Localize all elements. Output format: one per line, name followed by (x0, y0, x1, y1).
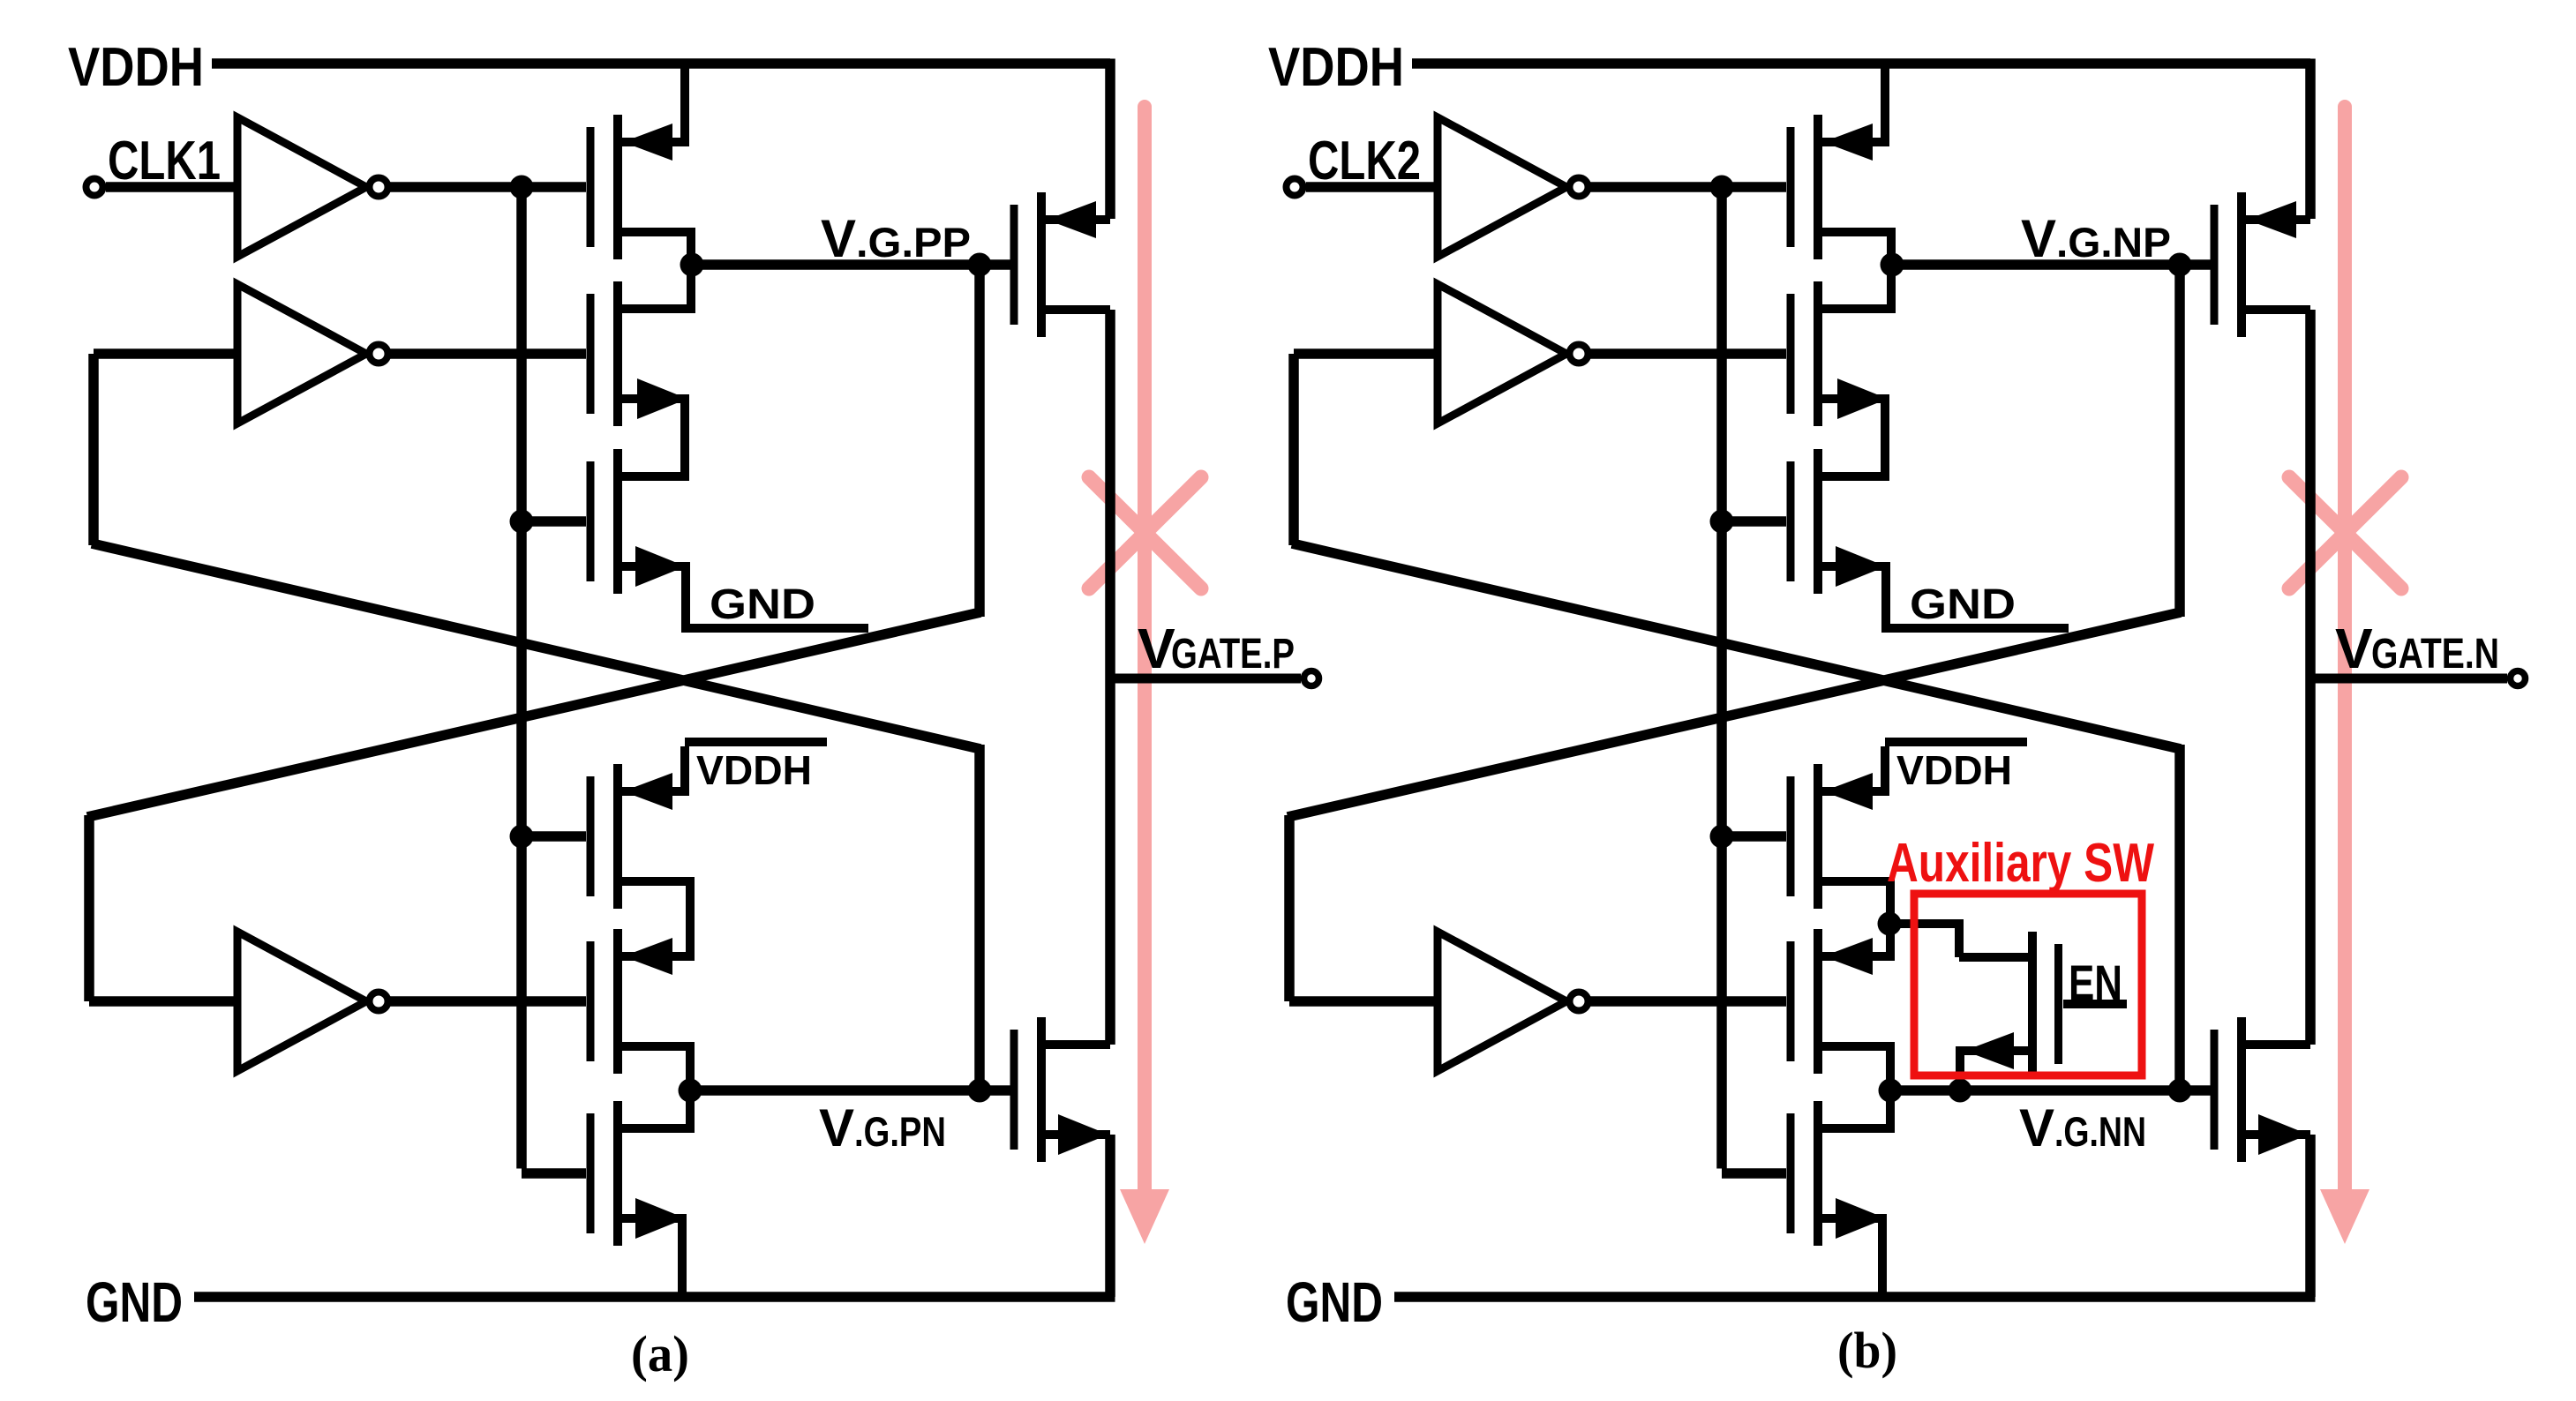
svg-text:V: V (1138, 617, 1175, 680)
svg-text:.G.NN: .G.NN (2054, 1108, 2146, 1155)
svg-text:Auxiliary SW: Auxiliary SW (1887, 833, 2154, 894)
svg-text:V: V (2021, 209, 2056, 268)
svg-text:V: V (2019, 1098, 2054, 1158)
svg-text:EN: EN (2069, 955, 2122, 1010)
svg-text:.G.NP: .G.NP (2056, 219, 2171, 266)
svg-text:(a): (a) (631, 1325, 689, 1382)
svg-text:V: V (819, 1098, 854, 1158)
svg-text:V: V (821, 209, 856, 268)
svg-text:V: V (2335, 617, 2373, 680)
svg-text:GATE.N: GATE.N (2371, 631, 2499, 678)
svg-text:CLK1: CLK1 (108, 131, 221, 191)
svg-text:GATE.P: GATE.P (1171, 631, 1295, 678)
svg-text:.G.PN: .G.PN (854, 1108, 946, 1155)
svg-text:CLK2: CLK2 (1308, 131, 1421, 191)
svg-text:.G.PP: .G.PP (856, 219, 971, 266)
svg-text:(b): (b) (1837, 1322, 1897, 1379)
